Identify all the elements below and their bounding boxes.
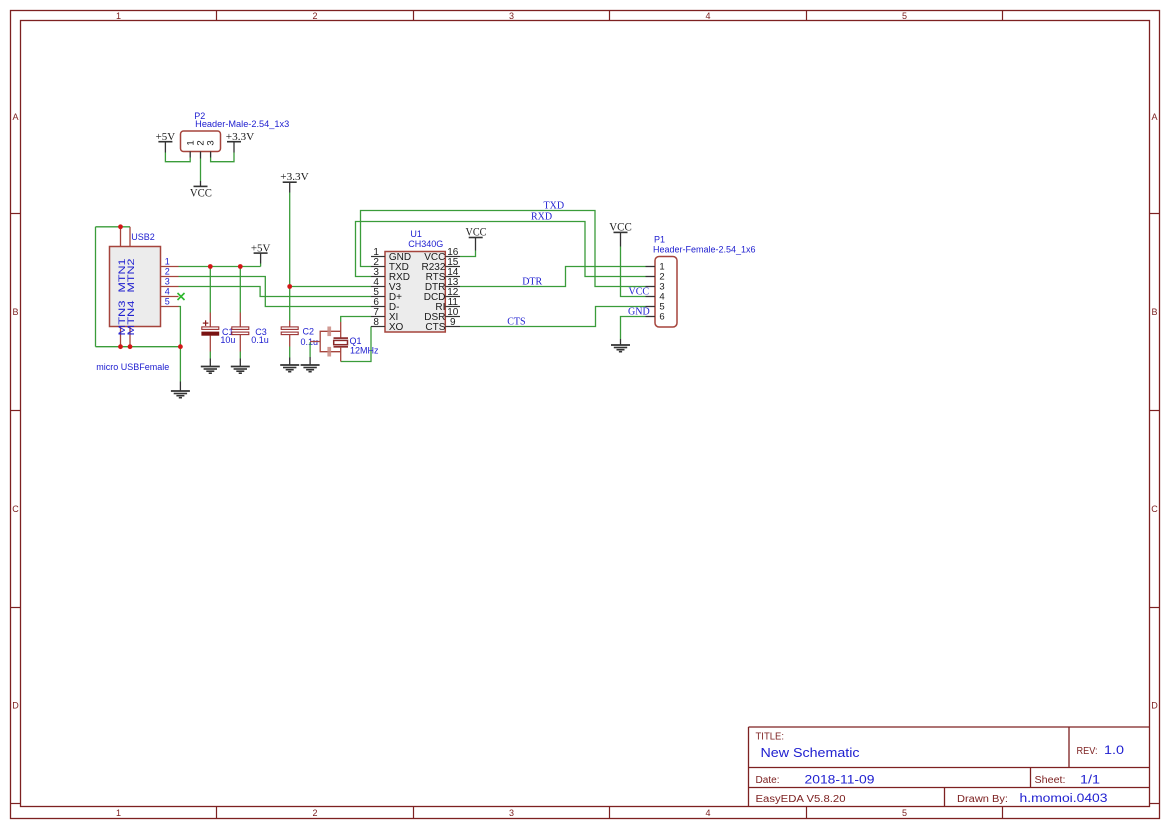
svg-text:2: 2 [165, 267, 170, 277]
svg-text:C2: C2 [303, 327, 315, 337]
svg-text:h.momoi.0403: h.momoi.0403 [1020, 793, 1108, 805]
svg-text:+5V: +5V [156, 131, 176, 143]
svg-text:1.0: 1.0 [1104, 745, 1124, 757]
svg-text:Drawn By:: Drawn By: [957, 794, 1008, 805]
svg-text:TITLE:: TITLE: [756, 732, 785, 743]
svg-text:Header-Male-2.54_1x3: Header-Male-2.54_1x3 [195, 119, 289, 129]
svg-text:MTN4: MTN4 [126, 301, 136, 336]
svg-text:10u: 10u [220, 335, 235, 345]
svg-text:D: D [1151, 701, 1158, 711]
svg-text:C: C [1151, 504, 1158, 514]
svg-text:4: 4 [165, 287, 170, 297]
svg-text:5: 5 [902, 11, 907, 21]
svg-text:XO: XO [389, 322, 404, 333]
svg-text:A: A [1151, 112, 1157, 122]
svg-text:6: 6 [659, 312, 664, 323]
svg-text:TXD: TXD [544, 201, 565, 212]
svg-text:5: 5 [902, 808, 907, 818]
svg-text:+3.3V: +3.3V [280, 171, 309, 183]
svg-text:A: A [12, 112, 18, 122]
svg-text:USB2: USB2 [131, 232, 155, 242]
svg-text:C: C [12, 504, 19, 514]
svg-text:B: B [12, 307, 18, 317]
svg-text:Header-Female-2.54_1x6: Header-Female-2.54_1x6 [653, 244, 756, 254]
svg-text:2: 2 [312, 11, 317, 21]
svg-text:micro USBFemale: micro USBFemale [96, 362, 169, 372]
svg-text:2: 2 [312, 808, 317, 818]
svg-text:VCC: VCC [609, 219, 632, 233]
svg-text:RXD: RXD [531, 212, 552, 223]
svg-text:9: 9 [450, 317, 456, 328]
svg-text:4: 4 [705, 808, 710, 818]
svg-text:12MHz: 12MHz [350, 346, 379, 356]
svg-text:B: B [1151, 307, 1157, 317]
svg-text:CTS: CTS [425, 322, 445, 333]
svg-text:4: 4 [705, 11, 710, 21]
svg-text:1/1: 1/1 [1080, 775, 1100, 787]
svg-text:MTN2: MTN2 [126, 259, 136, 293]
svg-text:CTS: CTS [507, 317, 525, 328]
svg-text:Date:: Date: [756, 775, 780, 786]
svg-text:CH340G: CH340G [408, 239, 443, 249]
svg-text:3: 3 [206, 140, 217, 145]
svg-text:+5V: +5V [251, 242, 271, 254]
svg-text:REV:: REV: [1077, 746, 1098, 757]
svg-text:3: 3 [165, 277, 170, 287]
svg-text:P1: P1 [654, 235, 665, 245]
svg-text:VCC: VCC [466, 225, 487, 239]
svg-text:U1: U1 [410, 229, 422, 239]
svg-text:3: 3 [509, 808, 514, 818]
svg-text:+3.3V: +3.3V [226, 131, 255, 143]
svg-text:3: 3 [509, 11, 514, 21]
svg-text:New Schematic: New Schematic [761, 745, 861, 760]
svg-text:DTR: DTR [522, 277, 542, 288]
svg-text:1: 1 [165, 257, 170, 267]
svg-text:1: 1 [116, 11, 121, 21]
svg-text:5: 5 [165, 297, 170, 307]
svg-text:D: D [12, 701, 19, 711]
svg-text:0.1u: 0.1u [251, 335, 269, 345]
svg-text:8: 8 [373, 317, 379, 328]
svg-text:2018-11-09: 2018-11-09 [805, 775, 875, 787]
svg-text:VCC: VCC [190, 186, 212, 200]
svg-text:GND: GND [628, 306, 650, 317]
svg-text:1: 1 [116, 808, 121, 818]
svg-text:Q1: Q1 [350, 336, 362, 346]
svg-text:Sheet:: Sheet: [1035, 775, 1066, 786]
svg-text:EasyEDA V5.8.20: EasyEDA V5.8.20 [756, 794, 846, 805]
